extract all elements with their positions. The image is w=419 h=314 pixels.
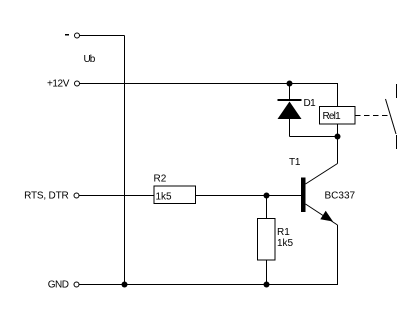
switch contact bottom terminal	[396, 135, 398, 149]
svg-text:R1: R1	[277, 227, 290, 238]
svg-text:1k5: 1k5	[277, 238, 294, 249]
terminal RTS, DTR	[74, 193, 79, 198]
svg-text:+12V: +12V	[47, 79, 70, 90]
terminal +12V	[75, 81, 80, 86]
wire R2 to base	[196, 195, 302, 197]
junction base node	[264, 193, 270, 199]
svg-text:Rel1: Rel1	[323, 111, 342, 122]
switch contact blade	[386, 99, 397, 134]
wire collector lead vertical	[337, 137, 339, 164]
resistor R2	[154, 186, 196, 204]
wire emitter lead vertical	[337, 225, 339, 285]
svg-text:RTS, DTR: RTS, DTR	[24, 191, 68, 202]
wire diode top lead	[289, 84, 291, 100]
wire diode bottom lead	[289, 119, 291, 137]
svg-text:BC337: BC337	[325, 191, 356, 202]
svg-text:D1: D1	[304, 98, 317, 109]
junction R1 bottom on GND rail	[264, 282, 270, 288]
wire top from minus terminal	[80, 35, 125, 37]
svg-text:T1: T1	[289, 157, 301, 168]
terminal GND	[74, 282, 79, 287]
wire diode bottom to relay bottom	[290, 136, 338, 138]
switch contact top terminal	[396, 84, 398, 98]
svg-text:R2: R2	[154, 174, 167, 185]
svg-text:Ub: Ub	[84, 54, 96, 65]
wire base input to R2	[79, 195, 154, 197]
dashed mechanical link relay to contact	[355, 115, 388, 117]
junction relay bottom node	[335, 134, 341, 140]
terminal: Ub minus	[75, 33, 80, 38]
transistor T1 base bar	[301, 178, 306, 213]
relay coil Rel1	[320, 107, 356, 125]
wire +12V rail	[80, 83, 339, 85]
svg-text:1k5: 1k5	[156, 192, 173, 203]
wire GND rail	[79, 284, 338, 286]
wire relay top lead	[337, 84, 339, 107]
junction diode top on +12V rail	[287, 81, 293, 87]
transistor T1 emitter diagonal	[306, 204, 338, 225]
wire base node to R1 top	[266, 196, 268, 219]
wire vertical main left bus	[124, 36, 126, 285]
transistor T1 collector diagonal	[306, 164, 338, 185]
wire relay bottom lead	[337, 124, 339, 137]
svg-text:GND: GND	[48, 280, 69, 291]
wire R1 bottom to GND rail	[266, 260, 268, 285]
diode D1	[278, 99, 302, 119]
junction left bus on GND rail	[122, 282, 128, 288]
transistor T1 emitter arrowhead	[320, 211, 333, 222]
label minus sign	[65, 34, 69, 36]
resistor R1	[258, 219, 276, 261]
